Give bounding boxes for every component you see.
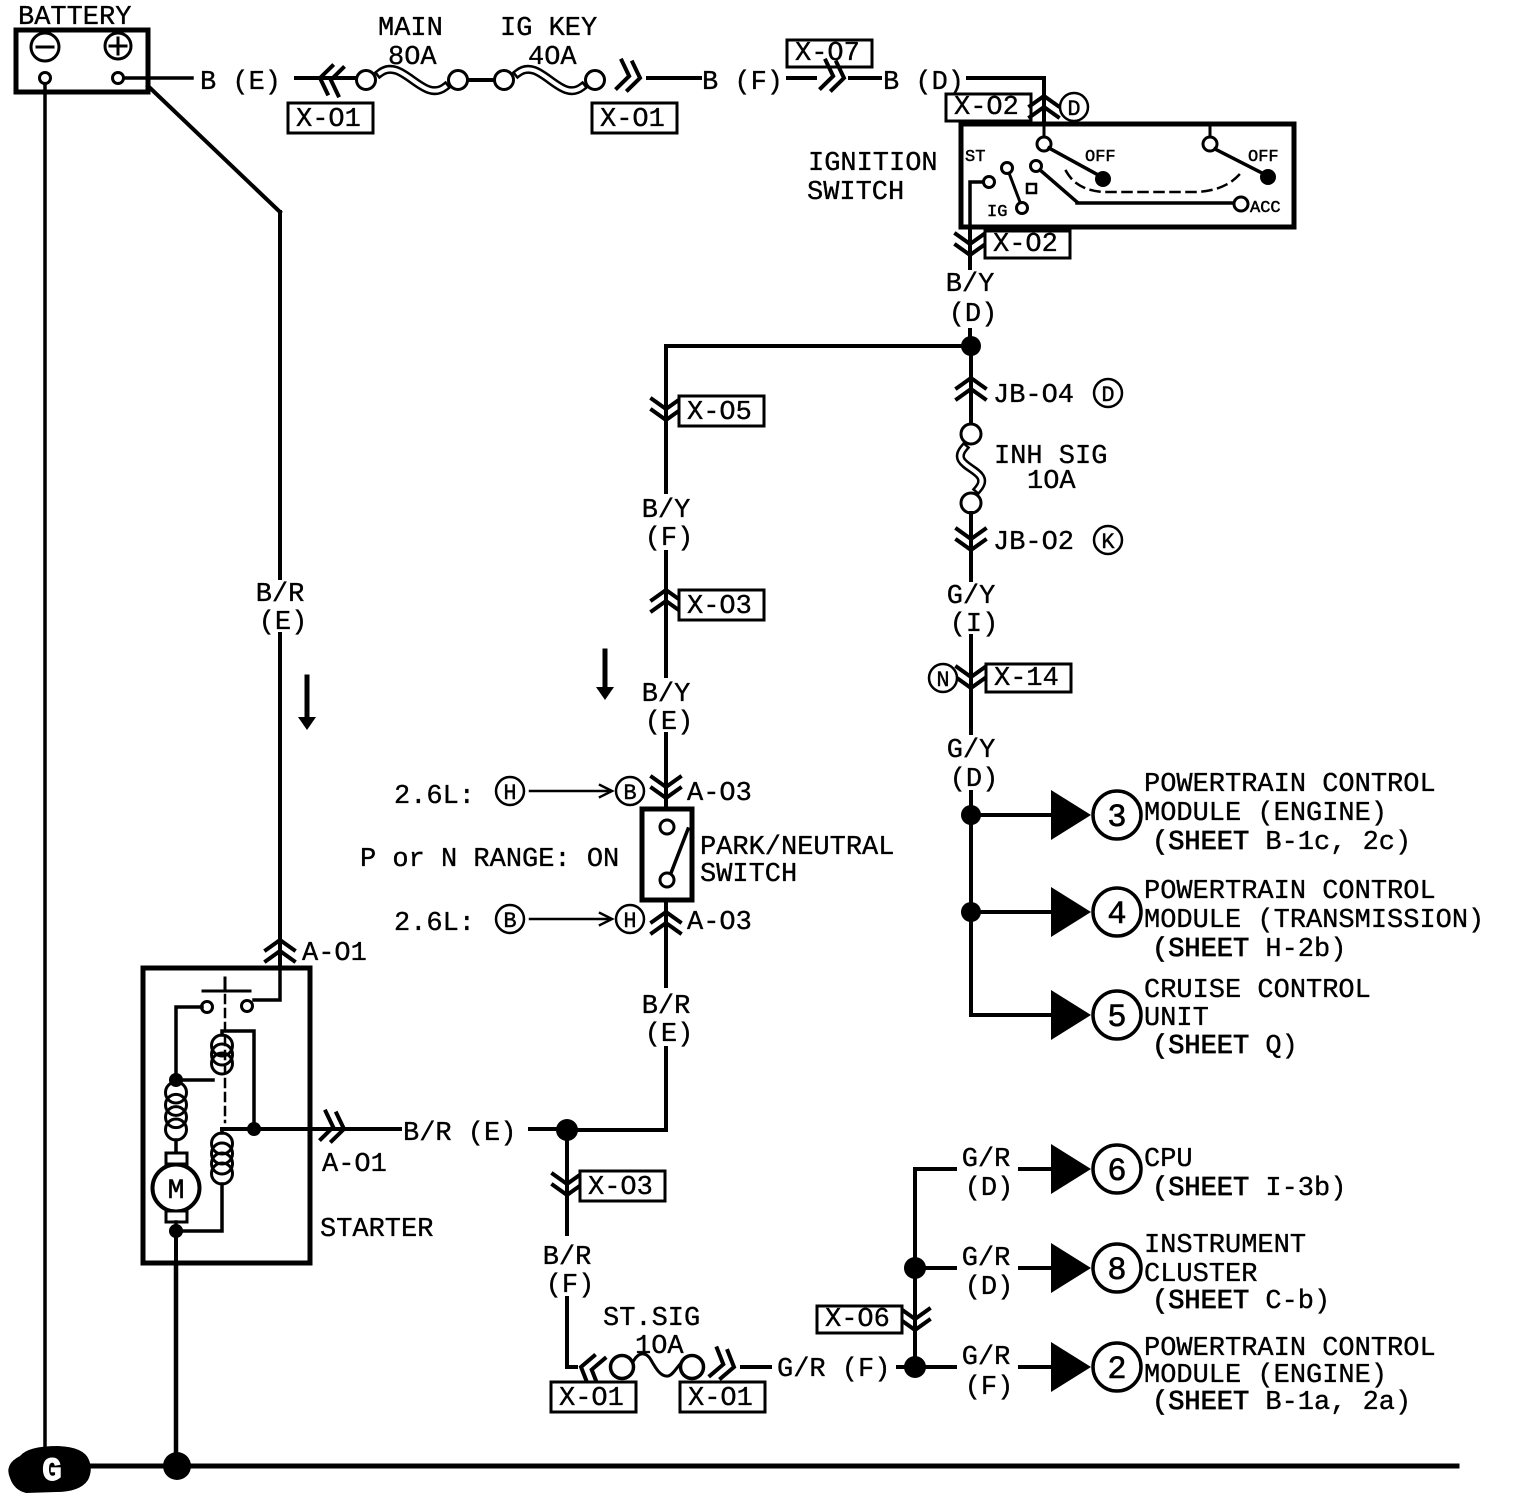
svg-text:OFF: OFF xyxy=(1248,148,1279,167)
svg-text:(I): (I) xyxy=(950,610,999,640)
svg-text:(F): (F) xyxy=(965,1373,1014,1403)
svg-text:(SHEET: (SHEET xyxy=(1152,1174,1249,1204)
svg-text:(D): (D) xyxy=(965,1174,1014,1204)
svg-text:(SHEET: (SHEET xyxy=(1152,1032,1249,1062)
svg-text:B/R: B/R xyxy=(543,1243,592,1273)
svg-text:ACC: ACC xyxy=(1250,199,1281,218)
svg-text:OFF: OFF xyxy=(1085,148,1116,167)
svg-text:MODULE (ENGINE): MODULE (ENGINE) xyxy=(1144,1361,1387,1391)
svg-text:POWERTRAIN CONTROL: POWERTRAIN CONTROL xyxy=(1144,877,1436,907)
svg-text:A-O1: A-O1 xyxy=(302,939,367,969)
svg-text:X-O2: X-O2 xyxy=(993,230,1058,260)
svg-text:B/Y: B/Y xyxy=(946,270,995,300)
svg-text:G: G xyxy=(42,1453,61,1490)
svg-text:(E): (E) xyxy=(259,608,308,638)
svg-text:H: H xyxy=(503,781,516,806)
svg-text:CLUSTER: CLUSTER xyxy=(1144,1260,1257,1290)
svg-text:X-O5: X-O5 xyxy=(687,398,752,428)
svg-text:B/Y: B/Y xyxy=(642,680,691,710)
svg-text:B-1a, 2a): B-1a, 2a) xyxy=(1265,1388,1411,1418)
svg-text:4: 4 xyxy=(1107,896,1126,933)
svg-text:CPU: CPU xyxy=(1144,1145,1193,1175)
svg-text:A-O3: A-O3 xyxy=(687,908,752,938)
svg-text:X-O3: X-O3 xyxy=(687,592,752,622)
svg-text:ST.SIG: ST.SIG xyxy=(603,1304,700,1334)
svg-text:PARK/NEUTRAL: PARK/NEUTRAL xyxy=(700,833,894,863)
svg-text:N: N xyxy=(936,668,949,693)
svg-text:POWERTRAIN CONTROL: POWERTRAIN CONTROL xyxy=(1144,1334,1436,1364)
svg-text:B/R: B/R xyxy=(256,580,305,610)
svg-text:MODULE (ENGINE): MODULE (ENGINE) xyxy=(1144,799,1387,829)
svg-text:(SHEET: (SHEET xyxy=(1152,935,1249,965)
svg-text:I-3b): I-3b) xyxy=(1265,1174,1346,1204)
svg-text:INSTRUMENT: INSTRUMENT xyxy=(1144,1231,1306,1261)
svg-text:D: D xyxy=(1067,97,1080,122)
svg-text:B/R: B/R xyxy=(642,992,691,1022)
svg-text:IG: IG xyxy=(987,203,1007,222)
svg-text:IG KEY: IG KEY xyxy=(500,14,597,44)
svg-text:B/Y: B/Y xyxy=(642,496,691,526)
svg-text:G/R: G/R xyxy=(962,1145,1011,1175)
svg-text:X-O1: X-O1 xyxy=(559,1384,624,1414)
svg-text:G/R (F): G/R (F) xyxy=(777,1355,890,1385)
svg-text:(SHEET: (SHEET xyxy=(1152,828,1249,858)
svg-text:B (F): B (F) xyxy=(702,68,783,98)
svg-text:A-O3: A-O3 xyxy=(687,779,752,809)
svg-text:JB-O4: JB-O4 xyxy=(993,381,1074,411)
svg-text:1OA: 1OA xyxy=(635,1332,684,1362)
svg-text:G/Y: G/Y xyxy=(947,736,996,766)
svg-text:2: 2 xyxy=(1107,1351,1126,1388)
svg-text:6: 6 xyxy=(1107,1153,1126,1190)
svg-text:2.6L:: 2.6L: xyxy=(394,782,475,812)
svg-text:B (E): B (E) xyxy=(200,68,281,98)
svg-text:MAIN: MAIN xyxy=(378,14,443,44)
svg-text:A-O1: A-O1 xyxy=(322,1150,387,1180)
svg-text:B: B xyxy=(623,781,636,806)
svg-text:UNIT: UNIT xyxy=(1144,1004,1209,1034)
svg-text:(F): (F) xyxy=(546,1271,595,1301)
svg-text:(SHEET: (SHEET xyxy=(1152,1388,1249,1418)
svg-text:Q): Q) xyxy=(1265,1032,1297,1062)
svg-text:1OA: 1OA xyxy=(1027,467,1076,497)
svg-text:5: 5 xyxy=(1107,999,1126,1036)
svg-text:POWERTRAIN CONTROL: POWERTRAIN CONTROL xyxy=(1144,770,1436,800)
svg-text:G/R: G/R xyxy=(962,1244,1011,1274)
svg-text:K: K xyxy=(1101,530,1115,555)
svg-text:(D): (D) xyxy=(949,300,998,330)
svg-text:STARTER: STARTER xyxy=(320,1215,433,1245)
svg-text:X-O3: X-O3 xyxy=(588,1173,653,1203)
svg-text:H-2b): H-2b) xyxy=(1265,935,1346,965)
svg-text:(D): (D) xyxy=(965,1273,1014,1303)
svg-text:8: 8 xyxy=(1107,1252,1126,1289)
svg-text:X-O6: X-O6 xyxy=(825,1305,890,1335)
svg-text:H: H xyxy=(623,909,636,934)
svg-text:G/Y: G/Y xyxy=(947,582,996,612)
svg-text:JB-O2: JB-O2 xyxy=(993,528,1074,558)
svg-text:G/R: G/R xyxy=(962,1343,1011,1373)
svg-text:ST: ST xyxy=(965,148,985,167)
svg-text:MODULE (TRANSMISSION): MODULE (TRANSMISSION) xyxy=(1144,906,1484,936)
svg-text:CRUISE CONTROL: CRUISE CONTROL xyxy=(1144,976,1371,1006)
svg-text:B-1c, 2c): B-1c, 2c) xyxy=(1265,828,1411,858)
svg-text:C-b): C-b) xyxy=(1265,1287,1330,1317)
svg-text:X-O1: X-O1 xyxy=(600,105,665,135)
svg-text:P or N RANGE: ON: P or N RANGE: ON xyxy=(360,845,619,875)
svg-text:SWITCH: SWITCH xyxy=(807,178,904,208)
svg-text:(SHEET: (SHEET xyxy=(1152,1287,1249,1317)
svg-text:(E): (E) xyxy=(645,1020,694,1050)
svg-text:M: M xyxy=(168,1176,185,1207)
svg-text:X-O1: X-O1 xyxy=(688,1384,753,1414)
svg-text:D: D xyxy=(1101,383,1114,408)
svg-text:SWITCH: SWITCH xyxy=(700,860,797,890)
svg-text:(D): (D) xyxy=(950,765,999,795)
svg-text:X-O1: X-O1 xyxy=(296,105,361,135)
svg-text:(E): (E) xyxy=(645,708,694,738)
svg-text:B/R (E): B/R (E) xyxy=(403,1119,516,1149)
svg-text:X-O2: X-O2 xyxy=(954,93,1019,123)
svg-text:(F): (F) xyxy=(645,524,694,554)
svg-text:B: B xyxy=(503,909,516,934)
svg-text:IGNITION: IGNITION xyxy=(808,149,938,179)
svg-text:3: 3 xyxy=(1107,799,1126,836)
svg-text:2.6L:: 2.6L: xyxy=(394,909,475,939)
svg-text:X-14: X-14 xyxy=(994,664,1059,694)
